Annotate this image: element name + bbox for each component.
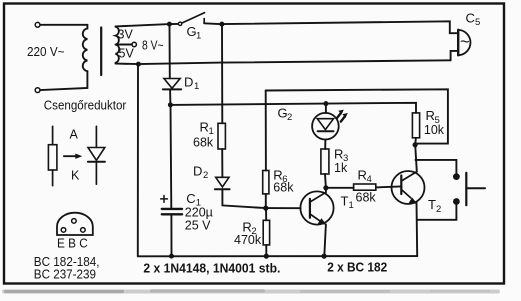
wire base node to R2 <box>265 208 267 220</box>
label G1 <box>187 24 202 42</box>
svg-text:BC 237-239: BC 237-239 <box>34 268 96 282</box>
junction R2 bottom <box>264 254 269 259</box>
wire T1 emitter to ground <box>324 224 326 256</box>
push button <box>453 173 485 205</box>
svg-text:D: D <box>193 163 202 178</box>
svg-text:5: 5 <box>475 17 480 28</box>
svg-text:10k: 10k <box>424 123 445 137</box>
svg-text:4: 4 <box>367 174 372 185</box>
legend arrow <box>64 154 82 159</box>
svg-text:R: R <box>358 167 367 182</box>
label R3 <box>334 146 348 164</box>
resistor R1 <box>218 123 225 149</box>
wire secondary top tap to G1 <box>116 24 170 26</box>
wire R5 to node <box>414 138 417 145</box>
label R4 <box>358 167 372 185</box>
transistor T2 <box>392 171 425 204</box>
resistor R5 <box>412 113 419 138</box>
wire R3 to collector node <box>324 174 327 188</box>
wire node to button top <box>415 160 456 174</box>
junction LED top <box>323 101 328 106</box>
wire R6 branch <box>265 91 267 171</box>
capacitor C1 <box>161 105 182 256</box>
transformer primary winding <box>35 22 87 92</box>
wire bottom tap rail <box>116 60 451 64</box>
svg-text:1: 1 <box>196 31 201 42</box>
junction D1 output <box>168 102 173 107</box>
switch G1 <box>172 13 220 26</box>
wire upper link line <box>266 89 448 143</box>
junction bottom tap <box>136 62 141 67</box>
svg-text:R: R <box>426 108 435 123</box>
svg-text:~: ~ <box>460 33 470 51</box>
svg-text:T: T <box>428 197 436 212</box>
svg-text:C: C <box>466 11 475 26</box>
svg-text:K: K <box>71 168 80 182</box>
transistor T1 <box>300 188 333 225</box>
svg-text:R: R <box>200 119 209 134</box>
diode D2 <box>215 177 230 189</box>
wire ground rail <box>138 255 417 257</box>
diode D1 <box>163 27 181 105</box>
junction C1 bottom <box>169 254 174 259</box>
junction G1 left <box>167 22 172 27</box>
junction R5 bottom node <box>413 142 418 147</box>
resistor R3 <box>321 149 329 174</box>
svg-text:1: 1 <box>349 200 354 211</box>
legend diode symbol <box>88 126 105 184</box>
svg-text:470k: 470k <box>234 233 262 247</box>
transformer secondary winding <box>116 27 120 63</box>
svg-text:220 V~: 220 V~ <box>27 45 65 59</box>
svg-text:T: T <box>341 193 349 208</box>
wire top rail to C5 <box>222 21 457 33</box>
junction base node <box>263 206 268 211</box>
svg-text:220µ: 220µ <box>185 205 213 219</box>
svg-text:A: A <box>70 127 79 141</box>
wire base node to T1 <box>266 207 301 209</box>
wire collector node to R4 <box>326 187 354 189</box>
junction T1 emitter <box>322 254 327 259</box>
wire R6 to base node <box>265 194 267 208</box>
label T1 <box>341 193 354 211</box>
svg-text:25 V: 25 V <box>185 219 211 233</box>
svg-text:Csengőreduktor: Csengőreduktor <box>44 99 127 113</box>
label R5 <box>426 108 440 126</box>
label C1 <box>186 191 201 209</box>
transistor package pinout <box>57 213 93 235</box>
wire T2 emitter down <box>416 202 419 256</box>
svg-text:1: 1 <box>194 81 199 92</box>
label D2 <box>193 163 208 181</box>
resistor R6 <box>263 171 269 194</box>
buzzer C5 <box>458 30 470 56</box>
svg-text:68k: 68k <box>273 181 294 195</box>
wire node to T2 collector <box>415 145 417 172</box>
wire R1 to D2 <box>221 149 223 177</box>
resistor R4 <box>354 184 376 190</box>
wire AC return drop <box>137 64 139 256</box>
svg-text:1k: 1k <box>334 161 348 175</box>
label D1 <box>184 74 199 92</box>
svg-text:8 V~: 8 V~ <box>142 38 164 53</box>
svg-text:2 x 1N4148, 1N4001 stb.: 2 x 1N4148, 1N4001 stb. <box>143 260 280 275</box>
label T2 <box>428 197 441 215</box>
svg-text:5V: 5V <box>119 47 135 61</box>
wire R1 branch <box>221 26 223 123</box>
svg-text:R: R <box>334 146 343 161</box>
svg-text:68k: 68k <box>193 136 214 150</box>
wire DC supply line <box>170 103 416 113</box>
label R1 <box>200 119 214 137</box>
svg-text:D: D <box>184 74 193 89</box>
wire buzzer bottom return <box>451 51 457 60</box>
label R6 <box>273 167 287 185</box>
svg-text:3V: 3V <box>118 28 134 42</box>
wire R2 to ground rail <box>265 245 267 256</box>
node 8V~ mid tap <box>116 42 137 46</box>
label C5 <box>466 11 481 29</box>
wire D2 to base node <box>222 189 265 208</box>
junction T1 collector node <box>323 185 328 190</box>
transformer core <box>100 28 102 76</box>
junction G1 right <box>219 22 224 27</box>
resistor R2 <box>263 220 269 245</box>
legend resistor symbol <box>48 126 57 185</box>
svg-text:E B C: E B C <box>57 237 88 251</box>
svg-text:2: 2 <box>287 112 292 123</box>
label G2 <box>278 105 293 123</box>
svg-text:2: 2 <box>436 204 441 215</box>
svg-text:2 x BC 182: 2 x BC 182 <box>327 260 387 275</box>
wire emitter to button bottom <box>417 205 456 220</box>
svg-text:C: C <box>186 191 195 206</box>
wire R4 to T2 base <box>376 186 402 187</box>
svg-text:68k: 68k <box>356 191 377 205</box>
svg-text:2: 2 <box>203 170 208 181</box>
LED G2 <box>312 104 348 149</box>
label R2 <box>242 219 256 237</box>
